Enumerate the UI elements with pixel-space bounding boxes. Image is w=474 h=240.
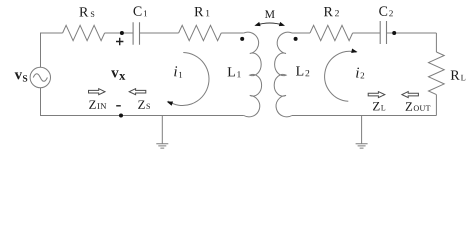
ZL arrow (hollow, points right) bbox=[368, 92, 385, 98]
wire: Rs to C1 bbox=[105, 32, 134, 34]
wire: bottom of primary loop bbox=[40, 115, 244, 117]
L2 polarity dot bbox=[294, 37, 298, 41]
wire: R2 to C2 bbox=[353, 32, 381, 34]
minus sign (vx polarity) bbox=[116, 105, 121, 107]
label vs bbox=[15, 72, 28, 81]
resistor R1 bbox=[179, 25, 222, 40]
wire: left rail bbox=[40, 33, 42, 116]
label i1 bbox=[174, 66, 182, 78]
ZIN arrow (hollow, points right) bbox=[89, 89, 106, 95]
wire: C2 to top-right corner bbox=[387, 32, 437, 34]
ground (primary side) bbox=[156, 116, 168, 149]
mutual inductance arrow M bbox=[254, 22, 285, 26]
voltage source vs (AC circle with sine) bbox=[30, 67, 50, 87]
label vx bbox=[111, 70, 125, 79]
wire: right rail top bbox=[435, 33, 437, 52]
resistor RL (load) bbox=[429, 52, 445, 95]
L1 polarity dot bbox=[240, 37, 244, 41]
label ZS bbox=[138, 101, 150, 109]
wire: RL to bottom-right corner bbox=[435, 95, 437, 116]
capacitor C1 bbox=[133, 22, 139, 45]
label i2 bbox=[356, 68, 364, 79]
label ZOUT bbox=[406, 102, 431, 110]
capacitor C2 bbox=[380, 21, 386, 44]
label RS bbox=[79, 7, 94, 17]
ZOUT arrow (hollow, points left) bbox=[402, 92, 419, 98]
label R1 bbox=[195, 7, 210, 16]
label M bbox=[265, 10, 275, 18]
inductor L1 (primary coil) bbox=[244, 32, 262, 117]
resistor R2 bbox=[310, 25, 353, 40]
current arrow i2 (counter-clockwise arc) bbox=[325, 49, 358, 102]
label C1 bbox=[133, 6, 147, 16]
wire: C1 to R1 bbox=[140, 32, 179, 34]
wire: bottom of secondary loop bbox=[292, 115, 436, 117]
current arrow i1 (clockwise arc) bbox=[167, 53, 209, 106]
label RL bbox=[451, 71, 466, 81]
wire: L2 to R2 bbox=[292, 32, 310, 34]
label ZL bbox=[373, 102, 385, 110]
ground (secondary side) bbox=[356, 116, 368, 149]
resistor RS bbox=[63, 25, 105, 40]
label L1 bbox=[228, 67, 241, 77]
node vx+ junction dot bbox=[120, 31, 124, 35]
label R2 bbox=[324, 7, 339, 16]
label L2 bbox=[296, 66, 309, 76]
wire: top-left corner to Rs bbox=[40, 32, 63, 34]
label ZIN bbox=[89, 101, 106, 109]
label C2 bbox=[379, 6, 393, 16]
inductor L2 (secondary coil) bbox=[274, 32, 292, 117]
plus sign (vx polarity) bbox=[116, 38, 123, 45]
node after C2 junction dot bbox=[392, 31, 396, 35]
wire: R1 to L1 bbox=[221, 32, 244, 34]
ZS arrow (hollow, points left) bbox=[129, 89, 146, 95]
node vx- junction dot bbox=[119, 114, 123, 118]
